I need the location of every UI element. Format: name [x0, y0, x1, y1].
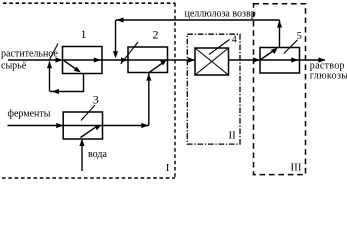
block 1 — [63, 47, 103, 74]
svg-text:II: II — [229, 130, 237, 142]
arrow into block 5 — [253, 57, 260, 62]
svg-text:вода: вода — [88, 149, 107, 160]
wire: block 5 top riser to return — [279, 20, 281, 48]
arrow into block 2 — [121, 57, 128, 62]
block 3 leader slash — [81, 105, 95, 121]
internal arrow of block 5 — [291, 57, 298, 62]
internal arrow of block 2 — [160, 60, 167, 66]
block 4 leader slash — [209, 40, 230, 55]
wire: enzyme feed into block 3 — [8, 125, 63, 127]
block 5 leader slash — [284, 40, 298, 54]
svg-text:3: 3 — [93, 93, 99, 107]
svg-text:ферменты: ферменты — [8, 109, 51, 120]
block 3 — [63, 112, 102, 139]
internal diagonal of block 5 — [260, 50, 275, 60]
wire: block 3 output to corner — [103, 125, 149, 127]
region I dashed border top — [3, 2, 176, 4]
wire: recycle drop from block 1 bottom — [50, 74, 84, 92]
svg-text:растительное: растительное — [1, 49, 58, 60]
block 1 leader slash — [49, 44, 58, 61]
svg-text:глюкозы: глюкозы — [310, 70, 347, 81]
block 2 — [128, 47, 168, 73]
svg-text:целлюлоза возвр: целлюлоза возвр — [185, 9, 256, 20]
internal diagonal of block 1 — [63, 60, 79, 71]
internal diagonal of block 3 — [81, 127, 97, 138]
arrow into block 3 — [56, 123, 63, 128]
wire: cellulose return drop — [115, 20, 117, 52]
wire: block 5 output — [300, 59, 326, 61]
svg-text:I: I — [166, 162, 170, 174]
wire: internal line of block 1 — [63, 59, 103, 61]
corner right arrow — [141, 123, 148, 128]
riser up arrow — [277, 21, 282, 28]
wire: internal line of block 2 — [128, 59, 168, 61]
region I dashed border bottom — [2, 177, 175, 179]
block 2 leader slash — [121, 42, 138, 64]
up arrow into block 2 bottom — [146, 74, 151, 81]
block 5 — [260, 48, 300, 74]
wire: block 4 to block 5 — [229, 59, 260, 61]
svg-text:2: 2 — [153, 28, 159, 42]
arrow into block 4 — [188, 57, 195, 62]
internal arrow of block 3 — [95, 125, 102, 130]
wire: cellulose return horizontal — [116, 19, 280, 21]
svg-text:сырьё: сырьё — [1, 61, 27, 72]
recycle up arrow — [47, 61, 52, 68]
wire: block 1 to block 2 — [102, 59, 128, 61]
svg-text:III: III — [291, 162, 302, 174]
wire: block 2 to block 4 — [168, 59, 195, 61]
block 4 internal diagonal 2 — [195, 48, 229, 75]
region III dashed border — [254, 4, 306, 175]
wire: recycle riser to feed line — [49, 62, 51, 92]
block 4 internal diagonal 1 — [195, 48, 229, 75]
cellulose return down arrow — [113, 51, 118, 58]
arrow into block 1 — [56, 57, 63, 62]
output arrow — [319, 57, 326, 62]
internal diagonal of block 2 — [149, 62, 164, 72]
wire: raw material feed into block 1 — [8, 59, 62, 61]
region I dashed border right — [174, 3, 176, 178]
wire: internal line of block 5 — [260, 59, 300, 61]
wire: internal line of block 3 — [63, 125, 102, 127]
internal arrow of block 1 — [94, 57, 101, 62]
block 4 — [195, 48, 229, 75]
water up arrow — [79, 139, 84, 146]
cellulose return left arrow — [117, 17, 124, 22]
internal diagonal arrow of block 5 — [271, 48, 278, 54]
svg-text:4: 4 — [232, 35, 237, 46]
internal diagonal arrow of block 1 — [74, 67, 81, 73]
recycle left arrow — [52, 89, 59, 94]
wire: water feed into block 3 — [81, 140, 83, 171]
svg-text:1: 1 — [81, 27, 87, 41]
region II dash-dot border — [187, 34, 240, 144]
wire: riser from block 3 to block 2 — [148, 73, 150, 126]
